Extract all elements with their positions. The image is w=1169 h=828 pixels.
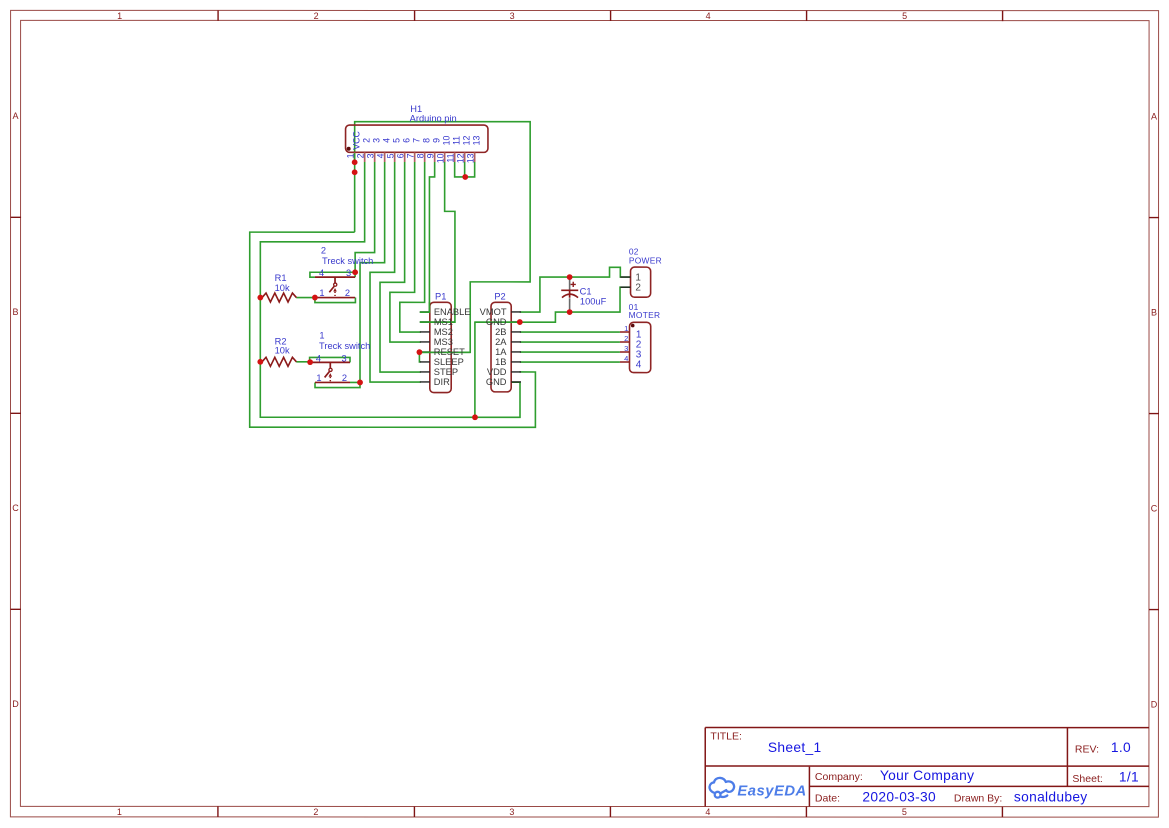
svg-text:P2: P2	[494, 292, 505, 302]
wire GND row through P2	[475, 321, 520, 323]
svg-text:8: 8	[415, 153, 425, 158]
svg-text:B: B	[13, 307, 19, 317]
svg-text:100uF: 100uF	[580, 297, 607, 307]
svg-text:4: 4	[316, 353, 321, 363]
svg-text:4: 4	[706, 11, 711, 21]
svg-text:3: 3	[346, 268, 351, 278]
svg-text:RESET: RESET	[434, 347, 465, 357]
svg-text:1: 1	[319, 288, 324, 298]
H1 pin stubs	[355, 152, 475, 162]
wire GND net: H1 pin2 down-left rail	[260, 162, 520, 417]
junction node RESET	[417, 349, 423, 355]
wire H1 pin3 to switch2	[355, 162, 375, 272]
svg-text:POWER: POWER	[629, 255, 662, 265]
junction node R2 left	[257, 359, 263, 365]
svg-text:3: 3	[624, 344, 628, 353]
junction node H1 pin1 a	[352, 159, 358, 165]
wire RESET row through P1	[419, 351, 470, 353]
junction node P2 GND	[517, 319, 523, 325]
svg-text:6: 6	[401, 138, 411, 143]
svg-text:12: 12	[461, 135, 471, 145]
wire RESET to SLEEP tie	[419, 352, 420, 362]
svg-text:5: 5	[385, 153, 395, 158]
capacitor C1	[561, 282, 578, 298]
P1 pin name labels overlay	[434, 317, 465, 357]
junction node C1 minus	[567, 309, 573, 315]
wire switch2 top loop	[310, 272, 355, 277]
wire R1 right lead to switch2 pin1	[296, 297, 315, 299]
wire H1 pin5 to DIR	[370, 162, 421, 382]
resistor R1	[262, 293, 296, 302]
title block	[705, 728, 1149, 807]
wire H1 pin6 to STEP	[380, 162, 421, 372]
svg-text:5: 5	[391, 138, 401, 143]
svg-text:10k: 10k	[275, 346, 290, 356]
svg-text:MS3: MS3	[434, 337, 453, 347]
svg-text:EasyEDA: EasyEDA	[737, 783, 806, 799]
POWER pin stubs	[620, 277, 630, 287]
svg-text:Drawn By:: Drawn By:	[954, 793, 1002, 805]
svg-text:3: 3	[371, 138, 381, 143]
svg-text:4: 4	[375, 153, 385, 158]
wire H1 pin8 to MS2	[400, 162, 425, 332]
svg-text:4: 4	[624, 354, 628, 363]
svg-text:13: 13	[471, 135, 481, 145]
svg-text:2B: 2B	[495, 327, 506, 337]
wire GND riser to P2 GND row	[475, 287, 631, 417]
wire MS1 row through P1	[420, 321, 455, 323]
wire switch1 bottom loop	[315, 382, 360, 387]
wire R2 left lead to GND rail	[260, 361, 262, 363]
svg-text:7: 7	[411, 138, 421, 143]
junction node R1 left	[257, 295, 263, 301]
svg-text:VMOT: VMOT	[480, 307, 507, 317]
svg-text:R1: R1	[275, 273, 287, 283]
svg-text:5: 5	[902, 807, 907, 817]
svg-text:DIR: DIR	[434, 377, 450, 387]
svg-text:2020-03-30: 2020-03-30	[862, 790, 936, 805]
junction node switch2 pin1	[312, 295, 318, 301]
wire H1 pin7 to MS3	[390, 162, 421, 342]
svg-text:A: A	[13, 111, 19, 121]
connector P2	[491, 302, 511, 392]
P1 pin stubs	[420, 312, 430, 382]
svg-text:12: 12	[455, 153, 465, 163]
capacitor C1 leads	[569, 277, 571, 312]
svg-text:VCC: VCC	[351, 131, 361, 150]
svg-text:1: 1	[117, 807, 122, 817]
svg-text:Treck switch: Treck switch	[319, 341, 370, 351]
junction node GND rail	[472, 414, 478, 420]
wire R1 left lead to GND rail	[260, 297, 262, 299]
wire H1 pin11-12-13 tie	[455, 162, 475, 177]
svg-text:4: 4	[705, 807, 710, 817]
svg-text:MS1: MS1	[434, 317, 453, 327]
svg-text:4: 4	[636, 359, 642, 370]
switch S2 (Treck switch 2)	[315, 277, 355, 297]
svg-text:1A: 1A	[495, 347, 507, 357]
wire switch1 top loop	[310, 357, 350, 362]
wires	[250, 122, 631, 428]
svg-text:10: 10	[435, 153, 445, 163]
svg-text:Sheet:: Sheet:	[1072, 773, 1102, 785]
svg-text:P1: P1	[435, 292, 446, 302]
wire P2 1A to MOTER 3	[520, 351, 620, 353]
svg-text:3: 3	[510, 11, 515, 21]
svg-text:C: C	[1151, 503, 1158, 513]
P1 pin name labels	[434, 307, 471, 387]
junction node C1 plus	[567, 274, 573, 280]
svg-text:9: 9	[431, 138, 441, 143]
header H1	[346, 125, 488, 152]
svg-text:3: 3	[509, 807, 514, 817]
svg-text:MS2: MS2	[434, 327, 453, 337]
svg-text:2: 2	[314, 11, 319, 21]
svg-text:13: 13	[465, 153, 475, 163]
svg-text:2: 2	[313, 807, 318, 817]
svg-text:STEP: STEP	[434, 367, 458, 377]
svg-text:SLEEP: SLEEP	[434, 357, 464, 367]
svg-text:4: 4	[381, 138, 391, 143]
svg-text:1: 1	[117, 11, 122, 21]
svg-text:Arduino pin: Arduino pin	[410, 113, 457, 123]
svg-text:Treck switch: Treck switch	[322, 256, 373, 266]
MOTER outside pin numbers	[624, 324, 628, 363]
H1 pin1 marker	[347, 147, 351, 151]
svg-text:A: A	[1151, 111, 1157, 121]
svg-text:10: 10	[441, 135, 451, 145]
svg-text:REV:: REV:	[1075, 744, 1099, 756]
wire VCC over H1 pin1 stub	[354, 153, 356, 162]
wire VMOT riser to POWER pin1	[520, 267, 631, 312]
wire R2 right lead to switch1 pin4	[296, 361, 310, 363]
svg-text:1: 1	[316, 373, 321, 383]
svg-text:D: D	[12, 699, 19, 709]
MOTER pin stubs	[620, 332, 630, 362]
resistor R2	[262, 357, 296, 366]
svg-text:GND: GND	[486, 317, 507, 327]
svg-text:2: 2	[355, 153, 365, 158]
svg-text:VDD: VDD	[487, 367, 507, 377]
wire P2 1B to MOTER 4	[520, 361, 620, 363]
svg-text:C1: C1	[580, 287, 592, 297]
connector 01 MOTER	[630, 322, 651, 372]
svg-text:sonaldubey: sonaldubey	[1014, 790, 1088, 805]
junction node switch2 pin3	[352, 269, 358, 275]
connector 02 POWER	[631, 267, 651, 297]
svg-text:Your Company: Your Company	[880, 768, 974, 783]
svg-text:Sheet_1: Sheet_1	[768, 740, 822, 755]
svg-text:8: 8	[421, 138, 431, 143]
H1 pin name labels (rotated)	[351, 131, 481, 150]
P2 pin stubs	[511, 312, 521, 382]
svg-text:1: 1	[624, 324, 628, 333]
switch S1 (Treck switch 1)	[310, 362, 350, 382]
svg-text:MOTER: MOTER	[629, 310, 661, 320]
svg-text:9: 9	[425, 153, 435, 158]
svg-text:B: B	[1151, 307, 1157, 317]
svg-text:2A: 2A	[495, 337, 507, 347]
H1 pin number labels (rotated)	[345, 153, 475, 163]
svg-text:3: 3	[342, 353, 347, 363]
svg-text:2: 2	[624, 334, 628, 343]
wire VCC left rail down to bottom	[250, 232, 536, 427]
wire switch2 bottom loop	[315, 298, 356, 303]
junction node pins 11-12-13 tie	[462, 174, 468, 180]
EasyEDA logo	[710, 778, 735, 798]
svg-text:2: 2	[361, 138, 371, 143]
svg-text:2: 2	[321, 246, 326, 256]
svg-text:1.0: 1.0	[1111, 740, 1131, 755]
svg-text:11: 11	[445, 153, 455, 162]
junction node H1 pin1 b	[352, 169, 358, 175]
svg-text:1B: 1B	[495, 357, 506, 367]
junction node switch1 pin4	[307, 359, 313, 365]
svg-text:10k: 10k	[275, 283, 290, 293]
svg-text:GND: GND	[486, 377, 507, 387]
svg-text:2: 2	[635, 282, 641, 293]
svg-text:6: 6	[395, 153, 405, 158]
svg-text:Date:: Date:	[815, 793, 840, 805]
wire H1 pin4 to switch1	[360, 162, 385, 383]
svg-text:ENABLE: ENABLE	[434, 307, 471, 317]
wire H1 pin10 to MS1	[420, 162, 455, 322]
wire P2 2A to MOTER 2	[520, 341, 620, 343]
connector P1	[430, 302, 451, 392]
svg-text:4: 4	[319, 268, 324, 278]
svg-text:11: 11	[451, 136, 461, 145]
svg-text:TITLE:: TITLE:	[710, 731, 742, 743]
svg-text:Company:: Company:	[815, 771, 863, 783]
svg-text:1/1: 1/1	[1119, 770, 1139, 785]
wire P2 2B to MOTER 1	[520, 331, 620, 333]
svg-text:7: 7	[405, 153, 415, 158]
wire pin9 to ENABLE along P1 edge	[420, 302, 430, 312]
MOTER inside pin names	[636, 329, 642, 370]
wire H1 pin9 to ENABLE	[420, 162, 435, 312]
wire VCC net: H1 pin1 up-over-right rail to RESET	[355, 122, 531, 353]
svg-text:3: 3	[365, 153, 375, 158]
svg-text:C: C	[12, 503, 19, 513]
MOTER pin1 marker	[631, 324, 635, 328]
svg-text:D: D	[1151, 699, 1158, 709]
svg-text:5: 5	[902, 11, 907, 21]
svg-text:1: 1	[319, 331, 324, 341]
svg-text:2: 2	[342, 373, 347, 383]
svg-text:2: 2	[345, 288, 350, 298]
P2 pin name labels	[480, 307, 508, 387]
wire overlays crossing component outlines	[355, 153, 520, 352]
junction node switch1 pin2	[357, 380, 363, 386]
